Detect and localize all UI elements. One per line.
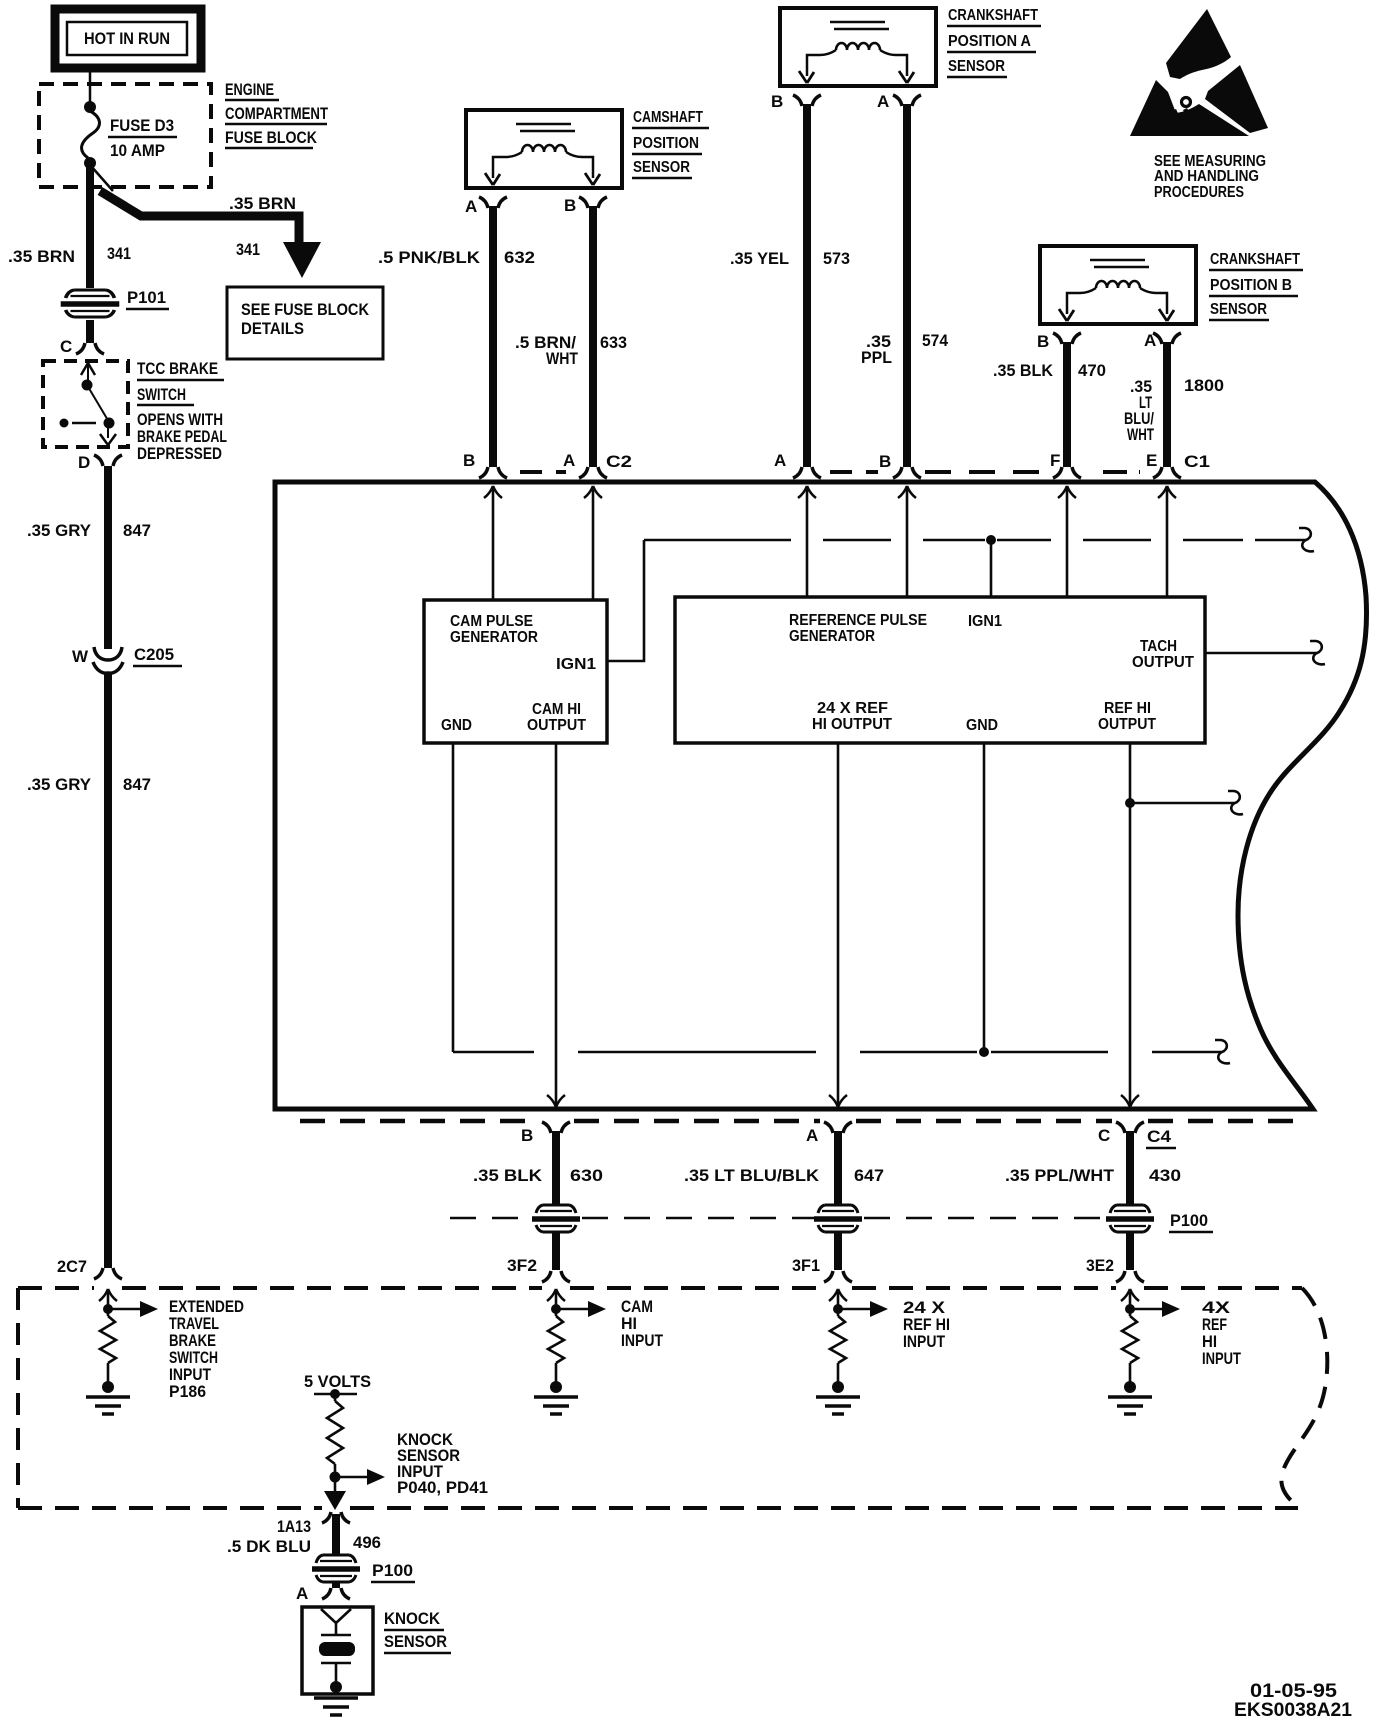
pin A cup (knock sensor) [296, 1581, 350, 1603]
svg-text:3F2: 3F2 [507, 1256, 537, 1275]
pin C cup [60, 337, 104, 356]
cam sensor pin A cup [465, 197, 507, 216]
svg-text:FUSE BLOCK: FUSE BLOCK [225, 128, 318, 147]
svg-text:EKS0038A21: EKS0038A21 [1234, 1700, 1352, 1721]
svg-text:C2: C2 [606, 452, 632, 471]
svg-text:DETAILS: DETAILS [241, 319, 304, 338]
wire crank A pin A into reference pulse generator [798, 486, 816, 597]
svg-text:430: 430 [1149, 1166, 1181, 1185]
svg-text:A: A [1144, 331, 1156, 350]
svg-text:SWITCH: SWITCH [137, 385, 186, 404]
wire to 3E2 [1086, 1232, 1144, 1282]
wire .5 DK BLU 496 [227, 1514, 381, 1556]
svg-text:CRANKSHAFT: CRANKSHAFT [948, 7, 1038, 24]
svg-text:.35 BRN: .35 BRN [8, 247, 75, 266]
5 volts supply [304, 1372, 371, 1401]
REF HI tap break [1228, 791, 1243, 814]
svg-text:A: A [465, 197, 477, 216]
IGN1 junction [986, 535, 996, 545]
svg-text:AND HANDLING: AND HANDLING [1154, 168, 1259, 185]
svg-text:SENSOR: SENSOR [384, 1632, 447, 1651]
svg-text:.35 YEL: .35 YEL [730, 249, 789, 268]
svg-text:OUTPUT: OUTPUT [527, 717, 586, 734]
wire crank B pin F into reference pulse generator [1058, 486, 1076, 597]
svg-text:B: B [771, 92, 783, 111]
svg-text:.5 PNK/BLK: .5 PNK/BLK [378, 248, 481, 267]
4x ref hi input [1108, 1289, 1241, 1414]
wire .5 BRN/WHT 633 [515, 206, 627, 467]
wire .35 BLK 470 [993, 342, 1106, 467]
cam hi input [534, 1289, 664, 1414]
see fuse block details box [227, 287, 383, 359]
wire .5 PNK/BLK 632 [378, 206, 535, 467]
svg-text:GENERATOR: GENERATOR [450, 629, 538, 646]
wire .35 PPL 574 [861, 104, 948, 467]
svg-text:CRANKSHAFT: CRANKSHAFT [1210, 251, 1300, 268]
pin D cup [78, 453, 122, 472]
svg-text:.35 BLK: .35 BLK [993, 361, 1054, 380]
svg-text:POSITION B: POSITION B [1210, 277, 1292, 294]
svg-text:632: 632 [504, 248, 535, 267]
svg-text:3E2: 3E2 [1086, 1256, 1114, 1275]
connector P100 (knock) [312, 1555, 415, 1582]
svg-text:A: A [296, 1584, 308, 1603]
svg-text:847: 847 [123, 775, 151, 794]
fuse D3 10 AMP [82, 101, 177, 169]
connector P100 (24x ref) [814, 1205, 862, 1232]
ESD note text [1154, 153, 1266, 201]
crank A pin A cup [877, 92, 921, 111]
svg-text:B: B [521, 1126, 533, 1145]
svg-text:P040, PD41: P040, PD41 [397, 1478, 488, 1497]
svg-text:GND: GND [966, 717, 998, 734]
svg-text:10 AMP: 10 AMP [110, 141, 165, 160]
svg-text:C: C [1098, 1126, 1110, 1145]
wire to 3F2 [507, 1232, 570, 1282]
connector P100 (cam hi) [532, 1205, 580, 1232]
24 x ref hi input [816, 1289, 950, 1414]
ESD warning symbol [1130, 9, 1268, 136]
crank B pin B cup [1037, 332, 1081, 351]
svg-text:PPL: PPL [861, 348, 892, 367]
PCM pin B (cam) [463, 451, 507, 478]
crankshaft position B sensor [1040, 246, 1303, 324]
camshaft position sensor [466, 109, 709, 188]
knock sensor ground [314, 1698, 358, 1715]
PCM module box with torn right edge [275, 482, 1367, 1109]
GND bus wire [453, 1051, 1222, 1054]
wire .35 YEL 573 [730, 104, 850, 467]
wire from HOT IN RUN to fuse [89, 68, 92, 103]
svg-text:847: 847 [123, 521, 151, 540]
TCC brake switch box (dashed) [43, 359, 227, 463]
svg-text:SENSOR: SENSOR [1210, 301, 1267, 318]
PCM pin B (cam hi) below [521, 1122, 570, 1145]
svg-text:COMPARTMENT: COMPARTMENT [225, 104, 328, 123]
crank A pin B cup [771, 92, 821, 111]
svg-text:P101: P101 [127, 288, 166, 307]
svg-text:B: B [564, 196, 576, 215]
svg-text:W: W [72, 647, 89, 666]
svg-text:C1: C1 [1184, 452, 1210, 471]
svg-text:CAM PULSE: CAM PULSE [450, 613, 533, 630]
wire .35 GRY 847 upper [27, 466, 151, 649]
svg-text:5 VOLTS: 5 VOLTS [304, 1372, 371, 1391]
GND bus break [1215, 1040, 1230, 1063]
wire crank B pin E into reference pulse generator [1158, 486, 1176, 597]
cam GND wire [452, 743, 455, 1052]
svg-text:.5 DK BLU: .5 DK BLU [227, 1537, 311, 1556]
CAM HI OUTPUT wire [547, 743, 565, 1107]
svg-text:WHT: WHT [546, 349, 578, 368]
connector P100 (ref hi) [1106, 1205, 1213, 1232]
svg-text:HOT IN RUN: HOT IN RUN [84, 29, 170, 48]
IGN1 bus break [1299, 528, 1314, 551]
wire .35 BLK 630 [473, 1131, 603, 1204]
24 X REF HI OUTPUT wire [829, 743, 847, 1107]
svg-text:REF HI: REF HI [1104, 700, 1151, 717]
wire cam A into cam pulse generator [584, 486, 602, 600]
svg-text:3F1: 3F1 [792, 1256, 820, 1275]
svg-text:IGN1: IGN1 [968, 613, 1002, 630]
svg-text:OUTPUT: OUTPUT [1132, 654, 1194, 671]
wire .35 LT BLU/BLK 647 [684, 1131, 884, 1204]
engine compartment fuse block (dashed) [39, 80, 328, 187]
svg-text:P186: P186 [169, 1382, 206, 1401]
cam sensor pin B cup [564, 196, 607, 215]
TCC switch element [60, 363, 117, 445]
svg-text:D: D [78, 453, 90, 472]
GND bus junction [979, 1047, 989, 1057]
svg-text:C4: C4 [1147, 1127, 1172, 1146]
svg-text:A: A [563, 451, 575, 470]
svg-text:TACH: TACH [1140, 638, 1177, 655]
svg-text:P100: P100 [1170, 1211, 1208, 1230]
PCM input connector boundary (dashed) [18, 1288, 1327, 1508]
connector P101 [61, 288, 169, 317]
power feed box HOT IN RUN [55, 9, 201, 68]
svg-text:CAMSHAFT: CAMSHAFT [633, 109, 703, 126]
REF HI OUTPUT wire [1121, 743, 1139, 1107]
svg-text:PROCEDURES: PROCEDURES [1154, 184, 1244, 201]
knock sensor [302, 1607, 451, 1694]
svg-text:F: F [1050, 451, 1060, 470]
branch wire .35 BRN 341 to fuse block details [91, 166, 321, 278]
pin 1A13 cup [277, 1512, 350, 1536]
svg-text:WHT: WHT [1127, 425, 1154, 444]
svg-text:E: E [1146, 451, 1157, 470]
PCM pin F (crank B) [1050, 451, 1081, 478]
svg-text:341: 341 [236, 240, 260, 259]
svg-text:574: 574 [922, 331, 948, 350]
knock sensor input resistor [327, 1401, 343, 1464]
svg-text:1800: 1800 [1184, 376, 1224, 395]
extended travel brake switch input [86, 1289, 244, 1414]
svg-text:496: 496 [353, 1533, 381, 1552]
svg-text:.35 LT BLU/BLK: .35 LT BLU/BLK [684, 1166, 820, 1185]
svg-text:.35 GRY: .35 GRY [27, 775, 92, 794]
svg-text:INPUT: INPUT [621, 1331, 664, 1350]
svg-text:INPUT: INPUT [1202, 1349, 1241, 1368]
svg-text:A: A [774, 451, 786, 470]
IGN1 stub into reference box [990, 540, 993, 597]
svg-text:.35 GRY: .35 GRY [27, 521, 92, 540]
svg-text:01-05-95: 01-05-95 [1250, 1681, 1337, 1702]
svg-text:2C7: 2C7 [57, 1257, 87, 1276]
svg-text:POSITION: POSITION [633, 135, 699, 152]
svg-text:341: 341 [107, 244, 131, 263]
svg-text:OUTPUT: OUTPUT [1098, 716, 1156, 733]
wire .35 LT BLU/WHT 1800 [1124, 342, 1224, 467]
svg-text:HI OUTPUT: HI OUTPUT [812, 716, 892, 733]
PCM pin B (crank A) [879, 452, 921, 478]
svg-text:C: C [60, 337, 72, 356]
svg-text:P100: P100 [372, 1561, 413, 1580]
svg-text:REFERENCE PULSE: REFERENCE PULSE [789, 612, 927, 629]
wire .35 BRN 341 vertical [8, 166, 131, 288]
svg-text:SENSOR: SENSOR [633, 159, 690, 176]
wire crank A pin B into reference pulse generator [898, 486, 916, 597]
connector C205 [72, 645, 182, 673]
PCM pin A C2 (cam) [563, 451, 632, 478]
svg-text:SENSOR: SENSOR [948, 58, 1005, 75]
svg-text:B: B [879, 452, 891, 471]
svg-text:GND: GND [441, 717, 472, 734]
svg-text:C205: C205 [134, 645, 174, 664]
svg-text:B: B [1037, 332, 1049, 351]
wire .35 PPL/WHT 430 [1005, 1131, 1181, 1204]
crankshaft position A sensor [780, 7, 1041, 86]
svg-text:630: 630 [570, 1166, 603, 1185]
PCM pin E C1 (crank B) [1146, 451, 1210, 478]
svg-text:470: 470 [1078, 361, 1106, 380]
svg-text:IGN1: IGN1 [556, 656, 596, 673]
REF HI tap junction [1125, 798, 1135, 808]
svg-text:A: A [877, 92, 889, 111]
wire to 3F1 [792, 1232, 852, 1282]
IGN1 wire from cam pulse generator [607, 540, 644, 661]
crank B pin A cup [1144, 331, 1181, 350]
svg-text:CAM HI: CAM HI [532, 701, 581, 718]
knock sensor input node [324, 1430, 488, 1510]
TACH OUTPUT wire [1205, 652, 1317, 655]
P100 pass-through dashes [450, 1217, 1104, 1220]
svg-text:B: B [463, 451, 475, 470]
svg-text:TCC BRAKE: TCC BRAKE [137, 359, 218, 378]
svg-text:GENERATOR: GENERATOR [789, 628, 875, 645]
svg-text:633: 633 [600, 333, 627, 352]
svg-text:573: 573 [823, 249, 850, 268]
pin 2C7 cup [57, 1257, 122, 1279]
wire P101 to pin C [86, 320, 94, 343]
svg-text:.35 PPL/WHT: .35 PPL/WHT [1005, 1166, 1115, 1185]
svg-text:FUSE D3: FUSE D3 [110, 116, 174, 135]
svg-text:KNOCK: KNOCK [384, 1609, 441, 1628]
wire .35 GRY 847 lower [27, 672, 151, 1268]
IGN1 bus wire [644, 539, 1306, 542]
svg-text:1A13: 1A13 [277, 1517, 311, 1536]
svg-text:.35 BLK: .35 BLK [473, 1166, 543, 1185]
cam pulse generator box [424, 600, 607, 743]
svg-text:24 X REF: 24 X REF [817, 700, 888, 717]
svg-text:SEE FUSE BLOCK: SEE FUSE BLOCK [241, 300, 370, 319]
PCM pin C C4 (ref hi) below [1098, 1122, 1176, 1148]
svg-text:INPUT: INPUT [903, 1332, 946, 1351]
svg-text:DEPRESSED: DEPRESSED [137, 444, 222, 463]
svg-text:ENGINE: ENGINE [225, 80, 274, 99]
svg-text:A: A [806, 1126, 818, 1145]
PCM pin A (24x ref) below [806, 1122, 852, 1145]
REF HI tap wire [1130, 802, 1235, 805]
C4 connector dashes under PCM [300, 1119, 1300, 1124]
svg-text:647: 647 [854, 1166, 884, 1185]
ref GND wire [983, 743, 986, 1052]
reference pulse generator box [675, 597, 1205, 743]
svg-text:POSITION A: POSITION A [948, 33, 1031, 50]
TACH break [1310, 641, 1325, 664]
connector line dashes at PCM top [520, 470, 1140, 474]
svg-text:.35 BRN: .35 BRN [229, 194, 296, 213]
wire cam B into cam pulse generator [484, 486, 502, 600]
PCM pin A (crank A) [774, 451, 821, 478]
